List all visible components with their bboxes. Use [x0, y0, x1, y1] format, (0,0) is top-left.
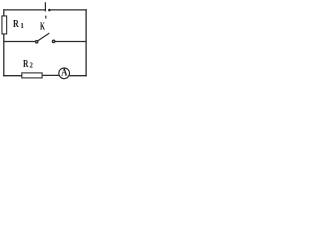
wire left rail lower (R1 bottom to bottom-left corner): [3, 35, 5, 77]
switch S right contact ring: [52, 40, 54, 42]
switch K blade (vertical lever above wire): [44, 2, 46, 11]
svg-text:A: A: [61, 68, 68, 79]
wire bottom-left segment (corner to R2): [3, 75, 21, 77]
svg-text:2: 2: [30, 63, 34, 70]
wire middle-right segment (ring to right rail): [55, 41, 86, 43]
wire bottom-middle segment (R2 to ammeter): [43, 74, 59, 76]
wire top-right segment (dot to top-right corner): [50, 9, 87, 11]
svg-text:R: R: [13, 18, 20, 30]
svg-text:K: K: [40, 20, 45, 32]
wire right rail (top-right corner to bottom-right corner): [85, 9, 87, 76]
switch K lower tick: [45, 16, 47, 19]
switch S blade (open, slanted up-right): [38, 33, 49, 41]
ammeter A (circle): [59, 68, 70, 79]
switch K right contact dot: [48, 9, 51, 12]
wire top-left segment (from left corner to switch K blade): [3, 9, 46, 11]
wire bottom-right segment (ammeter to bottom-right corner): [70, 75, 87, 77]
wire left rail upper (corner to R1 top): [3, 9, 5, 15]
resistor R1 (vertical box on left rail): [2, 16, 7, 34]
resistor R2 (horizontal box on bottom wire): [22, 73, 42, 78]
switch S left contact ring: [36, 41, 38, 43]
wire middle-left segment (left rail to switch ring): [4, 41, 35, 43]
svg-text:1: 1: [20, 21, 24, 30]
background: [0, 0, 90, 81]
svg-text:R: R: [23, 58, 29, 70]
